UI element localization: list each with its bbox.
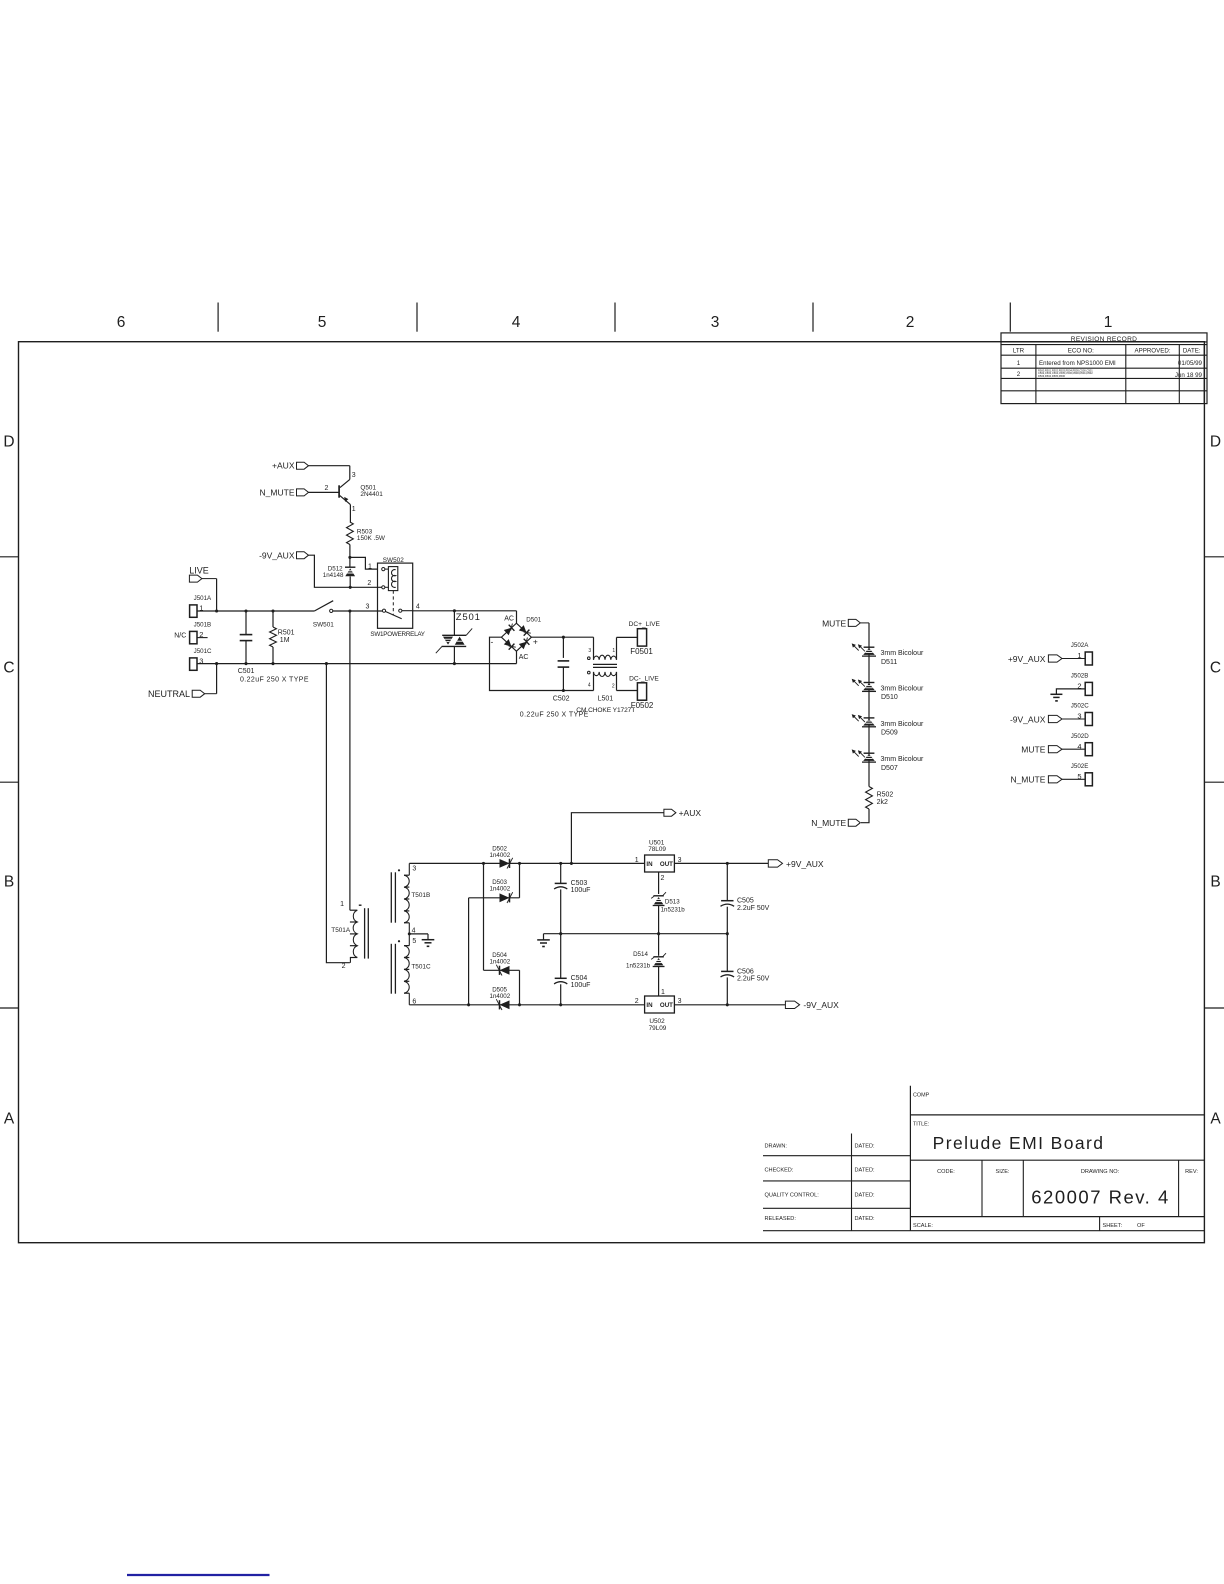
svg-text:LIVE: LIVE: [189, 566, 209, 576]
svg-text:AC: AC: [519, 654, 529, 661]
svg-text:J502D: J502D: [1071, 733, 1089, 740]
svg-text:1: 1: [368, 563, 372, 570]
svg-text:MUTE: MUTE: [822, 618, 846, 628]
svg-text:ECO NO:: ECO NO:: [1068, 348, 1094, 355]
svg-text:DRAWN:: DRAWN:: [765, 1143, 788, 1149]
svg-text:N/C: N/C: [174, 632, 186, 639]
svg-text:DRAWING NO:: DRAWING NO:: [1081, 1169, 1120, 1175]
svg-text:D: D: [1210, 434, 1221, 451]
svg-text:4: 4: [512, 314, 521, 331]
svg-text:1: 1: [635, 857, 639, 864]
svg-text:CODE:: CODE:: [937, 1169, 955, 1175]
svg-text:DATED:: DATED:: [855, 1143, 876, 1149]
wire bridge top feed: [516, 611, 518, 623]
choke L501: [576, 637, 635, 714]
svg-text:01/05/99: 01/05/99: [1178, 360, 1203, 367]
svg-text:C: C: [1210, 660, 1221, 677]
svg-text:J502C: J502C: [1071, 703, 1089, 710]
svg-text:AC: AC: [504, 615, 514, 622]
C502 labels: [520, 696, 589, 719]
svg-text:REV:: REV:: [1185, 1169, 1198, 1175]
svg-text:3mm Bicolour: 3mm Bicolour: [881, 685, 924, 692]
net flag N_MUTE: [1010, 775, 1085, 785]
svg-text:1: 1: [661, 989, 665, 996]
svg-text:-9V_AUX: -9V_AUX: [259, 551, 295, 561]
svg-text:SHEET:: SHEET:: [1103, 1223, 1123, 1229]
svg-text:T501B: T501B: [411, 892, 430, 899]
wire relay out to bridge: [413, 610, 517, 612]
svg-text:CHECKED:: CHECKED:: [765, 1168, 794, 1174]
net flag -9V_AUX (output): [785, 1000, 839, 1010]
net flag +9V_AUX (output): [768, 859, 824, 869]
svg-text:1: 1: [352, 506, 356, 513]
svg-text:78L09: 78L09: [648, 846, 666, 853]
svg-text:B: B: [1210, 874, 1220, 891]
svg-text:DATE:: DATE:: [1183, 348, 1201, 355]
wire NEUTRAL rise: [216, 664, 218, 694]
svg-text:2: 2: [342, 963, 346, 970]
revision record table: [1001, 333, 1207, 404]
wire J502B to ground: [1056, 689, 1085, 694]
ground (J502B): [1050, 694, 1062, 701]
capacitor C506: [721, 934, 770, 1005]
svg-text:CM CHOKE Y1727T: CM CHOKE Y1727T: [576, 707, 635, 714]
connector J502B: [1071, 673, 1093, 696]
wire neutral to primary pin2: [325, 662, 350, 963]
wire +9V output rail: [674, 862, 768, 865]
svg-text:DATED:: DATED:: [855, 1168, 876, 1174]
svg-text:1n4002: 1n4002: [490, 886, 511, 893]
wire Q501 collector: [309, 466, 350, 480]
svg-text:+AUX: +AUX: [272, 461, 295, 471]
svg-text:4: 4: [588, 683, 591, 689]
svg-text:REVISION RECORD: REVISION RECORD: [1071, 336, 1137, 343]
LED D510 3mm Bicolour: [852, 679, 924, 702]
transformer T501 secondary T501B: [391, 863, 430, 934]
svg-text:A: A: [1210, 1111, 1221, 1128]
svg-text:1: 1: [340, 901, 344, 908]
LED D511 3mm Bicolour: [852, 643, 924, 666]
svg-text:+9V_AUX: +9V_AUX: [786, 859, 824, 869]
svg-text:3mm Bicolour: 3mm Bicolour: [881, 721, 924, 728]
fuse F0501: [629, 621, 661, 656]
svg-text:3: 3: [366, 604, 370, 611]
svg-text:+9V_AUX: +9V_AUX: [1008, 654, 1046, 664]
wire centre tap to ground: [408, 932, 428, 935]
svg-text:+AUX: +AUX: [679, 808, 702, 818]
svg-text:OF: OF: [1137, 1223, 1145, 1229]
connector J502C: [1071, 703, 1093, 726]
wire D503 cathode up: [519, 863, 521, 897]
svg-text:D513: D513: [665, 899, 680, 906]
svg-text:C505: C505: [737, 898, 754, 905]
svg-text:N_MUTE: N_MUTE: [260, 487, 295, 497]
svg-text:3: 3: [711, 314, 720, 331]
svg-text:DC+_LIVE: DC+_LIVE: [629, 621, 661, 628]
svg-text:-9V_AUX: -9V_AUX: [803, 1000, 839, 1010]
regulator U502 79L09: [635, 989, 682, 1032]
svg-text:2: 2: [661, 875, 665, 882]
net flag +9V_AUX: [1008, 654, 1085, 664]
wire 0V rail: [544, 932, 729, 935]
svg-text:Entered from NPS1000 EMI: Entered from NPS1000 EMI: [1039, 360, 1116, 367]
svg-text:TITLE:: TITLE:: [913, 1122, 929, 1128]
fuse F0502: [629, 675, 659, 710]
wire led chain: [868, 623, 870, 787]
svg-text:620007 Rev. 4: 620007 Rev. 4: [1031, 1187, 1169, 1208]
svg-text:2: 2: [367, 580, 371, 587]
svg-text:4: 4: [416, 604, 420, 611]
wire live to primary pin1: [349, 611, 351, 910]
svg-text:-9V_AUX: -9V_AUX: [1010, 714, 1046, 724]
svg-text:3mm Bicolour: 3mm Bicolour: [881, 756, 924, 763]
svg-text:NEUTRAL: NEUTRAL: [148, 689, 190, 699]
svg-text:1n5231b: 1n5231b: [661, 907, 686, 914]
svg-text:J502E: J502E: [1071, 763, 1089, 770]
svg-text:2: 2: [906, 314, 915, 331]
transformer T501 secondary T501C: [391, 934, 431, 1005]
svg-text:D: D: [3, 434, 14, 451]
svg-text:100uF: 100uF: [571, 887, 591, 894]
svg-text:3: 3: [678, 998, 682, 1005]
net flag NEUTRAL: [148, 689, 217, 699]
suppressor Z501: [436, 611, 481, 665]
connector J502D: [1071, 733, 1093, 756]
svg-text:100uF: 100uF: [571, 982, 591, 989]
svg-text:N_MUTE: N_MUTE: [811, 818, 846, 828]
svg-text:3mm Bicolour: 3mm Bicolour: [881, 650, 924, 657]
svg-text:A: A: [4, 1111, 15, 1128]
connector J501B: [174, 621, 211, 644]
relay SW502: [366, 557, 426, 638]
svg-text:6: 6: [117, 314, 126, 331]
svg-text:1: 1: [612, 648, 615, 654]
svg-text:F0501: F0501: [630, 647, 653, 656]
net flag -9V_AUX (mute drive): [259, 551, 308, 561]
svg-text:1: 1: [1017, 360, 1021, 367]
svg-text:Prelude EMI Board: Prelude EMI Board: [933, 1133, 1105, 1153]
hyperlink underline artifact: [127, 1574, 270, 1576]
svg-text:C501: C501: [238, 668, 255, 675]
svg-text:QUALITY CONTROL:: QUALITY CONTROL:: [765, 1192, 820, 1198]
wire AC live rail: [197, 610, 314, 612]
svg-text:D509: D509: [881, 730, 898, 737]
connector J502E: [1071, 763, 1093, 786]
capacitor C505: [721, 863, 770, 933]
net flag MUTE (led chain top): [822, 618, 869, 628]
wire D503 row: [469, 897, 520, 899]
svg-text:2.2uF 50V: 2.2uF 50V: [737, 976, 770, 983]
svg-text:1M: 1M: [280, 637, 290, 644]
svg-text:C502: C502: [553, 696, 570, 703]
svg-text:3: 3: [352, 472, 356, 479]
svg-text:C506: C506: [737, 968, 754, 975]
net flag N_MUTE (base): [260, 487, 340, 497]
wire LIVE drop: [216, 579, 218, 611]
svg-text:4: 4: [412, 927, 416, 934]
diode D512: [323, 565, 356, 588]
svg-text:D501: D501: [526, 617, 541, 624]
net flag +AUX (output): [664, 808, 701, 818]
svg-text:5: 5: [412, 938, 416, 945]
wire D504 anode down: [519, 970, 521, 1005]
svg-text:IN: IN: [646, 861, 653, 868]
wire secondary pin3 rail: [409, 862, 644, 865]
connector J501C: [190, 648, 212, 671]
svg-text:1n4002: 1n4002: [490, 852, 511, 859]
svg-text:RELEASED:: RELEASED:: [765, 1216, 797, 1222]
svg-text:2: 2: [1017, 371, 1021, 378]
svg-text:79L09: 79L09: [649, 1025, 667, 1032]
connector J502A: [1071, 642, 1093, 665]
svg-text:N_MUTE: N_MUTE: [1010, 775, 1045, 785]
svg-text:2: 2: [612, 684, 615, 690]
svg-text:D510: D510: [881, 694, 898, 701]
transformer T501 primary T501A: [331, 901, 368, 970]
wire choke to F0501: [617, 636, 638, 638]
svg-text:SIZE:: SIZE:: [996, 1169, 1010, 1175]
wire bridge plus rail: [531, 636, 593, 638]
C501 value label: [238, 668, 309, 683]
zener D513: [651, 892, 685, 913]
svg-text:F0502: F0502: [631, 701, 654, 710]
ground (centre tap): [427, 934, 429, 940]
svg-text:3: 3: [588, 648, 591, 654]
net flag N_MUTE (led chain bottom): [811, 818, 860, 828]
svg-text:SW1POWERRELAY: SW1POWERRELAY: [370, 631, 425, 638]
diode D503: [490, 879, 513, 903]
svg-text:C503: C503: [571, 880, 588, 887]
title block: [763, 1086, 1204, 1231]
svg-text:DC-_LIVE: DC-_LIVE: [629, 675, 659, 682]
wire +AUX tap: [571, 813, 664, 864]
wire D514 to U502 pin1: [658, 967, 660, 996]
wire AC neutral rail: [197, 663, 517, 665]
svg-text:0.22uF 250 X TYPE: 0.22uF 250 X TYPE: [240, 676, 309, 683]
svg-text:1n4002: 1n4002: [490, 959, 511, 966]
svg-text:2k2: 2k2: [877, 799, 888, 806]
wire D513 to 0V: [658, 906, 660, 934]
svg-text:OUT: OUT: [660, 1002, 673, 1009]
wire bridge minus loop: [490, 637, 594, 690]
svg-text:1n5231b: 1n5231b: [626, 963, 651, 970]
wire -9V_AUX to relay pin2: [309, 555, 384, 587]
capacitor C502: [558, 636, 570, 692]
diode D504: [490, 952, 511, 975]
wire D504 row: [484, 969, 520, 971]
wire choke to F0502: [617, 690, 638, 692]
svg-text:3: 3: [412, 866, 416, 873]
svg-text:1n4002: 1n4002: [490, 993, 511, 1000]
svg-text:DATED:: DATED:: [855, 1216, 876, 1222]
net flag LIVE: [189, 566, 216, 583]
resistor R502: [866, 787, 894, 810]
wire -9V output rail: [674, 1003, 785, 1006]
svg-text:LTR: LTR: [1013, 348, 1025, 355]
svg-text:SW502: SW502: [383, 557, 404, 564]
svg-text:+: +: [533, 637, 538, 647]
svg-text:MUTE: MUTE: [1021, 745, 1045, 755]
net flag +AUX: [272, 461, 308, 471]
switch SW501: [313, 601, 334, 629]
zener D514: [626, 934, 666, 970]
net flag -9V_AUX: [1010, 714, 1085, 724]
net flag MUTE: [1021, 745, 1085, 755]
wire pin3 to D504: [483, 863, 485, 970]
svg-text:SCALE:: SCALE:: [913, 1223, 933, 1229]
ground (0V rail): [543, 934, 545, 940]
wire Q501 emitter: [349, 505, 351, 522]
svg-text:J501A: J501A: [194, 595, 212, 602]
wire U501 gnd leg: [658, 872, 660, 894]
svg-text:J502B: J502B: [1071, 673, 1089, 680]
regulator U501 78L09: [635, 839, 682, 882]
svg-text:5: 5: [318, 314, 327, 331]
svg-text:IN: IN: [646, 1002, 653, 1009]
diode D505: [490, 987, 511, 1010]
svg-text:R502: R502: [877, 792, 894, 799]
svg-text:APPROVED:: APPROVED:: [1134, 348, 1170, 355]
svg-text:D507: D507: [881, 765, 898, 772]
svg-text:OUT: OUT: [660, 861, 673, 868]
capacitor C501: [240, 609, 253, 665]
svg-text:D514: D514: [633, 951, 648, 958]
svg-text:C: C: [3, 660, 14, 677]
wire SW501 to relay: [333, 610, 384, 612]
svg-text:R501: R501: [278, 629, 295, 636]
svg-text:L501: L501: [598, 695, 614, 702]
LED D507 3mm Bicolour: [852, 749, 924, 772]
diode D502: [490, 845, 513, 868]
svg-text:DATED:: DATED:: [855, 1192, 876, 1198]
wire R503 to D512/relay: [348, 545, 377, 570]
svg-text:J501B: J501B: [194, 621, 212, 628]
svg-text:D503,D504,D505,D506: D503,D504,D505,D506: [1038, 374, 1066, 378]
resistor R501: [270, 609, 295, 665]
svg-text:2: 2: [325, 485, 329, 492]
svg-text:Jun 18 99: Jun 18 99: [1175, 372, 1203, 379]
wire bridge bottom to neutral: [516, 651, 518, 663]
svg-text:2N4401: 2N4401: [360, 491, 383, 498]
svg-text:SW501: SW501: [313, 621, 334, 628]
bridge rectifier D501: [491, 615, 542, 661]
transistor Q501: [325, 472, 384, 513]
wire D503 anode to pin6 rail: [468, 898, 470, 1005]
svg-text:COMP: COMP: [913, 1093, 930, 1099]
svg-text:150K .5W: 150K .5W: [357, 535, 386, 542]
svg-text:2.2uF 50V: 2.2uF 50V: [737, 905, 770, 912]
svg-text:C504: C504: [571, 975, 588, 982]
svg-text:2: 2: [635, 998, 639, 1005]
capacitor C503: [554, 863, 590, 933]
wire secondary pin6 rail: [409, 1003, 644, 1006]
resistor R503: [347, 522, 386, 545]
svg-text:J502A: J502A: [1071, 642, 1089, 649]
svg-text:T501A: T501A: [331, 927, 351, 934]
connector J501A: [190, 595, 212, 618]
LED D509 3mm Bicolour: [852, 714, 924, 737]
svg-text:T501C: T501C: [411, 964, 431, 971]
svg-text:Z501: Z501: [456, 612, 481, 623]
capacitor C504: [554, 934, 590, 1005]
svg-text:J501C: J501C: [194, 648, 212, 655]
svg-text:D511: D511: [881, 659, 897, 666]
svg-text:B: B: [4, 874, 14, 891]
wire R502 to N_MUTE: [861, 809, 869, 823]
svg-text:1n4148: 1n4148: [323, 572, 344, 579]
svg-text:1: 1: [1104, 314, 1113, 331]
